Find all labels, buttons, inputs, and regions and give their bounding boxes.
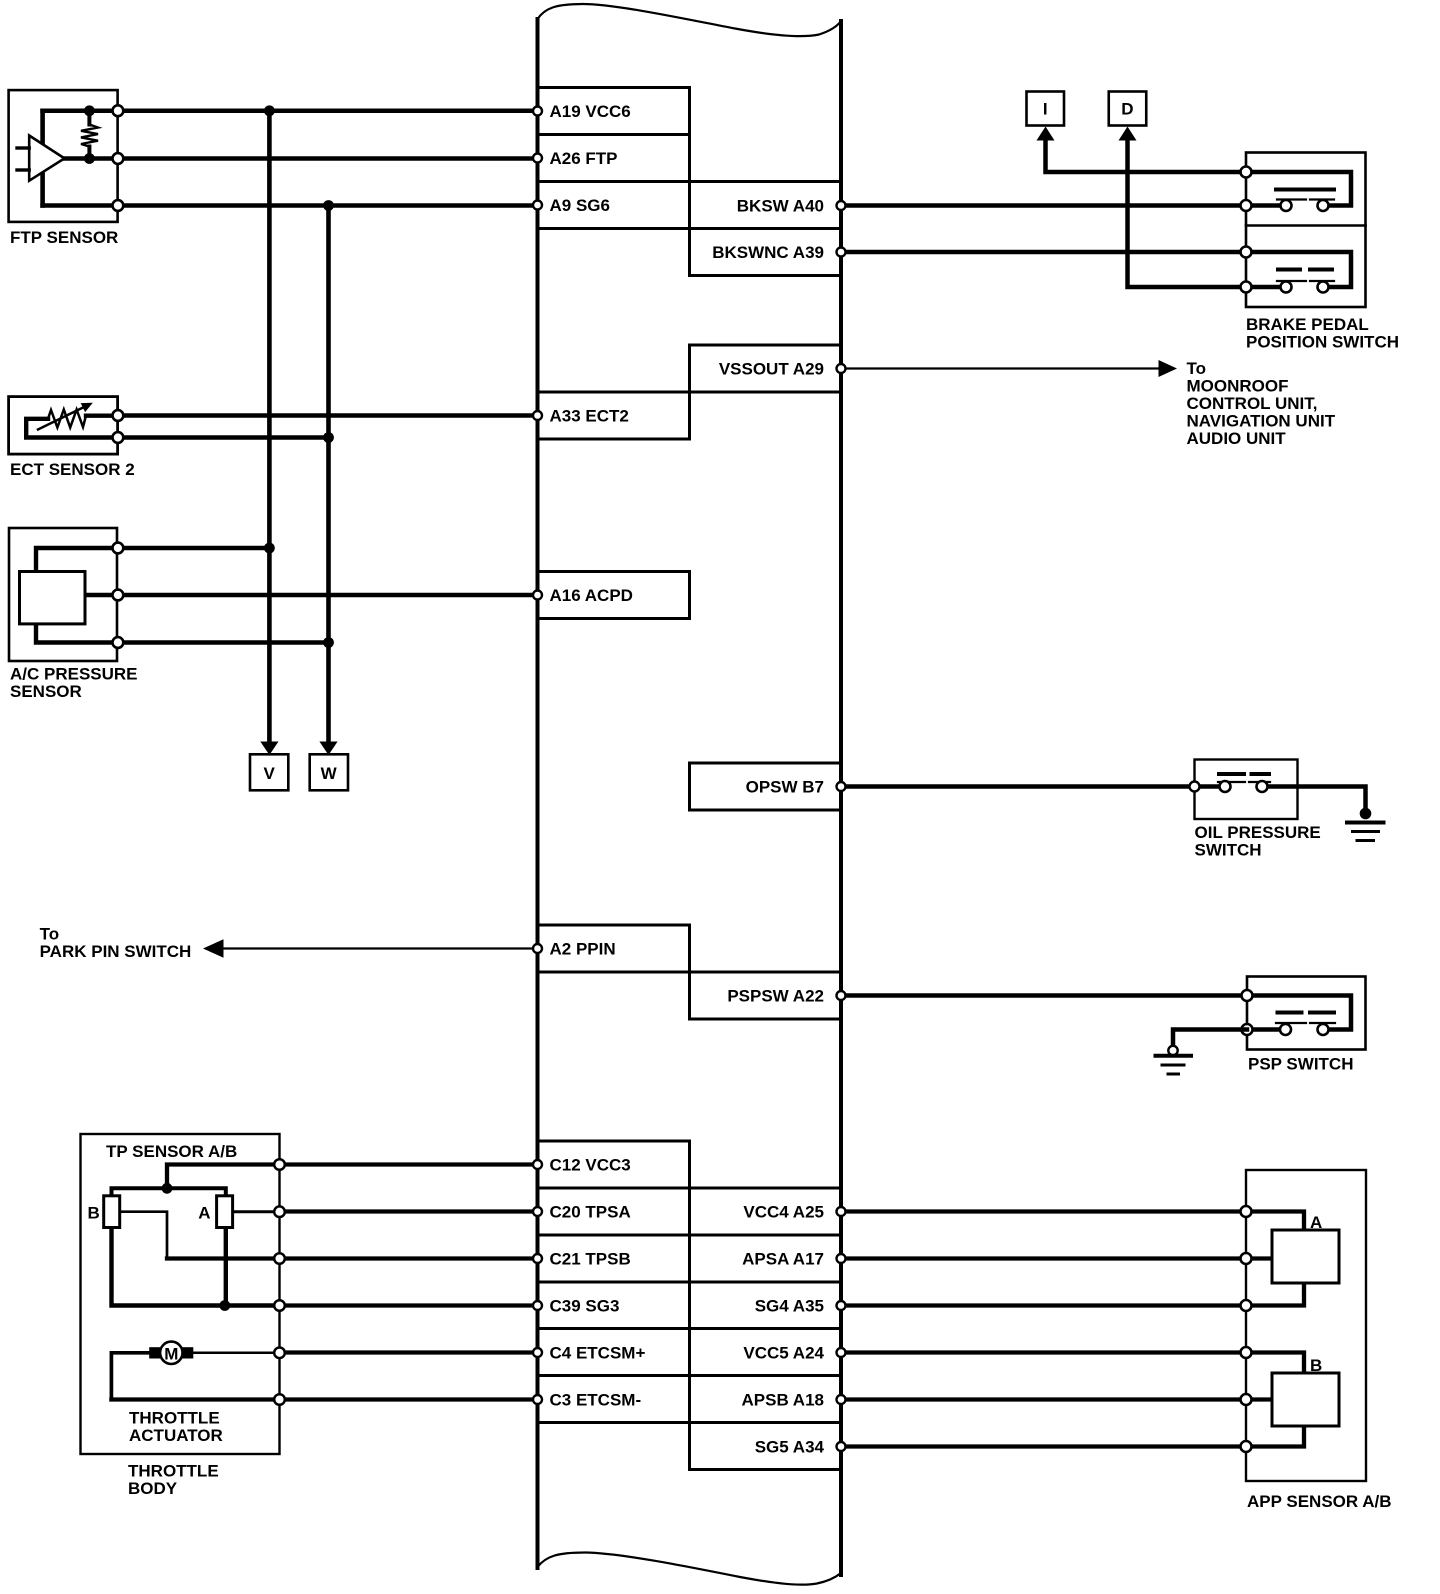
To MOONROOF CONTROL UNIT NAVIGATION UNIT AUDIO UNIT label bbox=[1187, 359, 1336, 448]
ECT thermistor arrowhead bbox=[81, 403, 93, 412]
ECM pin A9 SG6 bbox=[533, 196, 610, 215]
junction ACP ground on net W bbox=[323, 637, 334, 648]
svg-text:ACTUATOR: ACTUATOR bbox=[129, 1426, 223, 1445]
APP sensor B vcc wire bbox=[1246, 1353, 1304, 1374]
oil pressure switch right wire to ground bbox=[1262, 787, 1366, 813]
ACP internal vcc wire bbox=[36, 548, 118, 572]
brake switch upper contact plates bbox=[1277, 198, 1334, 200]
wire C39 SG3 to throttle body bbox=[280, 1303, 538, 1307]
svg-text:C12 VCC3: C12 VCC3 bbox=[550, 1156, 631, 1175]
throttle actuator motor left wire bbox=[111, 1353, 149, 1400]
ECM top torn edge bbox=[538, 4, 842, 36]
ECM pin A2 PPIN bbox=[533, 940, 616, 959]
svg-text:D: D bbox=[1121, 100, 1133, 119]
wire A2 PPIN to park pin switch bbox=[222, 947, 538, 949]
TP sensor A wiper wire bbox=[233, 1210, 280, 1213]
TP box pin C20 terminal bbox=[274, 1206, 285, 1217]
throttle body box bbox=[81, 1134, 280, 1454]
wire C20 TPSA to throttle body bbox=[280, 1209, 538, 1213]
junction ACP vcc on net V bbox=[264, 543, 275, 554]
TP box pin C21 terminal bbox=[274, 1253, 285, 1264]
ECM pin C21 TPSB bbox=[533, 1250, 631, 1269]
FTP pin2 terminal bbox=[113, 153, 124, 164]
TP sensor B wiper wire bbox=[120, 1212, 167, 1259]
ECM bottom torn edge bbox=[538, 1553, 842, 1585]
svg-text:A33 ECT2: A33 ECT2 bbox=[550, 407, 629, 426]
TP sensor A ground wire bbox=[224, 1228, 228, 1306]
ECT pin1 terminal bbox=[113, 410, 124, 421]
brake switch lower left terminal wire bbox=[1246, 285, 1280, 290]
APP sensor B signal wire bbox=[1246, 1397, 1272, 1401]
FTP op-amp input stub lower bbox=[17, 168, 29, 171]
APP sensor element B box bbox=[1272, 1373, 1339, 1426]
A/C pressure sensor box bbox=[9, 528, 117, 661]
brake pedal position switch box bbox=[1246, 153, 1366, 308]
ACP pin2 terminal bbox=[113, 590, 124, 601]
wire VSSOUT A29 to moonroof units bbox=[841, 367, 1160, 369]
ECM pin PSPSW A22 bbox=[727, 987, 845, 1006]
svg-text:BKSWNC A39: BKSWNC A39 bbox=[712, 243, 824, 262]
svg-text:B: B bbox=[1310, 1356, 1322, 1375]
FTP sensor internal left vertical wire bbox=[40, 111, 45, 206]
OIL PRESSURE SWITCH label bbox=[1195, 823, 1321, 860]
ECM pin APSA A17 bbox=[742, 1250, 845, 1269]
APP sensor A ground wire bbox=[1246, 1283, 1304, 1306]
ECM pin C39 SG3 bbox=[533, 1297, 619, 1316]
ECM pin C20 TPSA bbox=[533, 1203, 631, 1222]
throttle actuator motor right wire bbox=[193, 1352, 279, 1355]
ECM pin box grid: right column lines bbox=[690, 276, 842, 1470]
junction ECT ground on net W bbox=[323, 432, 334, 443]
ECM pin BKSWNC A39 bbox=[712, 243, 845, 262]
arrowhead to park pin switch bbox=[203, 939, 224, 957]
throttle actuator motor M bbox=[160, 1342, 182, 1364]
ECM pin C4 ETCSM+ bbox=[533, 1344, 645, 1363]
ECM pin VSSOUT A29 bbox=[719, 360, 846, 379]
arrowhead into I box bbox=[1037, 127, 1055, 141]
wire OPSW B7 to oil pressure switch bbox=[841, 784, 1225, 789]
APP sensor element A box bbox=[1272, 1230, 1339, 1283]
brake switch lower contact wire bbox=[1246, 252, 1351, 287]
oil pressure switch open dashes bbox=[1219, 772, 1269, 776]
svg-text:VCC5 A24: VCC5 A24 bbox=[743, 1344, 824, 1363]
FTP sensor op-amp triangle bbox=[29, 136, 64, 181]
TP potentiometer B bbox=[104, 1196, 120, 1228]
To PARK PIN SWITCH label bbox=[40, 925, 192, 962]
indicator box I bbox=[1027, 92, 1065, 126]
PSP switch box bbox=[1247, 977, 1366, 1050]
junction node W tap on A9 wire bbox=[323, 200, 334, 211]
ACP pin1 terminal bbox=[113, 543, 124, 554]
wire C3 ETCSM- to throttle body bbox=[280, 1397, 538, 1401]
wire SG5 A34 to APP sensor bbox=[841, 1444, 1246, 1448]
ECM pin A33 ECT2 bbox=[533, 407, 629, 426]
svg-text:I: I bbox=[1043, 100, 1048, 119]
APP sensor A signal wire bbox=[1246, 1256, 1272, 1260]
ECM pin BKSW A40 bbox=[737, 197, 846, 216]
APP sensor pin SG4 terminal bbox=[1241, 1300, 1252, 1311]
svg-text:A: A bbox=[1310, 1213, 1322, 1232]
FTP op-amp input stub upper bbox=[17, 146, 29, 149]
svg-text:THROTTLE: THROTTLE bbox=[129, 1409, 220, 1428]
ECM pin OPSW B7 bbox=[746, 778, 846, 797]
brake switch pin3 terminal bbox=[1241, 247, 1252, 258]
ECM left bus line bbox=[536, 19, 540, 1568]
svg-text:OIL PRESSURE: OIL PRESSURE bbox=[1195, 823, 1321, 842]
arrowhead into W box bbox=[319, 742, 337, 756]
svg-text:SG4 A35: SG4 A35 bbox=[755, 1297, 824, 1316]
ECM pin VCC5 A24 bbox=[743, 1344, 845, 1363]
svg-text:B: B bbox=[88, 1203, 100, 1222]
svg-text:A26 FTP: A26 FTP bbox=[550, 149, 618, 168]
PSP switch terminal A bbox=[1280, 1024, 1291, 1035]
junction FTP resistor top bbox=[84, 105, 95, 116]
svg-text:A: A bbox=[198, 1203, 210, 1222]
PSP switch open dashes bbox=[1278, 1011, 1335, 1015]
svg-text:TP SENSOR A/B: TP SENSOR A/B bbox=[106, 1142, 237, 1161]
ECM pin box grid: left column lines bbox=[538, 88, 690, 1142]
wire ECT pin1 to A33 ECT2 bbox=[118, 413, 538, 417]
brake switch lower open dashes bbox=[1278, 268, 1332, 272]
W box bbox=[310, 754, 348, 790]
svg-text:BODY: BODY bbox=[128, 1479, 178, 1498]
brake switch lower contact plates bbox=[1277, 280, 1334, 282]
ECM pin A26 FTP bbox=[533, 149, 618, 168]
wire ACP pin2 to A16 ACPD bbox=[118, 593, 538, 597]
wire TP B wiper to C21 bbox=[167, 1256, 280, 1260]
svg-text:C4 ETCSM+: C4 ETCSM+ bbox=[550, 1344, 646, 1363]
svg-text:APSA A17: APSA A17 bbox=[742, 1250, 824, 1269]
FTP sensor box bbox=[9, 90, 118, 222]
PSP switch contact plates bbox=[1276, 1022, 1335, 1024]
ECM pin A16 ACPD bbox=[533, 586, 633, 605]
arrowhead VSSOUT bbox=[1159, 360, 1178, 377]
arrowhead into D box bbox=[1119, 127, 1137, 141]
ground G101 dot bbox=[1360, 808, 1372, 820]
ECM pin SG4 A35 bbox=[755, 1297, 846, 1316]
wire brake switch pin1 to indicator I bbox=[1046, 141, 1247, 173]
FTP internal resistor top lead bbox=[87, 111, 91, 125]
wire net W vertical bbox=[326, 206, 331, 742]
junction node V tap on A19 wire bbox=[264, 105, 275, 116]
svg-text:A19 VCC6: A19 VCC6 bbox=[550, 102, 631, 121]
ECT sensor box bbox=[9, 397, 118, 455]
ground G401 terminal circle bbox=[1168, 1046, 1177, 1055]
ECT pin2 terminal bbox=[113, 432, 124, 443]
wire PSP switch to ground bbox=[1173, 1030, 1247, 1047]
wire C21 TPSB to throttle body bbox=[280, 1256, 538, 1260]
ECT thermistor zigzag bbox=[48, 410, 86, 428]
svg-text:To: To bbox=[40, 925, 60, 944]
APP sensor pin SG5 terminal bbox=[1241, 1441, 1252, 1452]
indicator box D bbox=[1109, 92, 1147, 126]
PSP switch left terminal wire bbox=[1247, 1027, 1280, 1032]
svg-text:AUDIO UNIT: AUDIO UNIT bbox=[1187, 429, 1287, 448]
svg-text:C39 SG3: C39 SG3 bbox=[550, 1297, 620, 1316]
ECM right bus line bbox=[839, 21, 843, 1575]
PSP switch contact wire bbox=[1247, 996, 1351, 1030]
brake switch upper terminal A bbox=[1281, 200, 1292, 211]
TP sensor top bar wire bbox=[112, 1188, 226, 1196]
ECM pin SG5 A34 bbox=[755, 1438, 846, 1457]
svg-text:VSSOUT A29: VSSOUT A29 bbox=[719, 360, 824, 379]
PSP switch terminal B bbox=[1318, 1024, 1329, 1035]
TP box pin C12 terminal bbox=[274, 1159, 285, 1170]
svg-text:FTP SENSOR: FTP SENSOR bbox=[10, 228, 118, 247]
svg-text:ECT SENSOR 2: ECT SENSOR 2 bbox=[10, 460, 135, 479]
FTP internal resistor zigzag bbox=[81, 125, 98, 147]
brake switch pin4 terminal bbox=[1241, 282, 1252, 293]
APP sensor pin VCC4 terminal bbox=[1241, 1206, 1252, 1217]
wire PSPSW A22 to PSP switch bbox=[841, 993, 1247, 998]
wire FTP pin2 to A26 FTP bbox=[118, 156, 538, 161]
svg-text:V: V bbox=[264, 764, 276, 783]
FTP sensor internal ground wire bbox=[43, 203, 118, 208]
TP box pin C4 terminal bbox=[274, 1348, 285, 1359]
wire APSA A17 to APP sensor bbox=[841, 1256, 1246, 1260]
junction TP ground bbox=[219, 1300, 230, 1311]
svg-text:MOONROOF: MOONROOF bbox=[1187, 377, 1289, 396]
THROTTLE ACTUATOR label bbox=[129, 1409, 223, 1446]
FTP pin1 terminal bbox=[113, 105, 124, 116]
svg-text:THROTTLE: THROTTLE bbox=[128, 1462, 219, 1481]
brake switch lower terminal A bbox=[1281, 282, 1292, 293]
FTP pin3 terminal bbox=[113, 200, 124, 211]
APP sensor pin VCC5 terminal bbox=[1241, 1347, 1252, 1358]
brake switch upper contact wire bbox=[1246, 172, 1351, 206]
APP sensor A vcc wire bbox=[1246, 1212, 1304, 1231]
svg-text:NAVIGATION UNIT: NAVIGATION UNIT bbox=[1187, 412, 1336, 431]
oil pressure switch terminal A bbox=[1220, 781, 1231, 792]
ACP internal ground wire bbox=[36, 624, 118, 643]
BRAKE PEDAL POSITION SWITCH label bbox=[1246, 315, 1399, 352]
APP sensor B ground wire bbox=[1246, 1426, 1304, 1447]
wire C4 ETCSM+ to throttle body bbox=[280, 1350, 538, 1354]
V box bbox=[250, 754, 288, 790]
svg-text:M: M bbox=[164, 1344, 178, 1363]
ACP pin3 terminal bbox=[113, 637, 124, 648]
TP sensor vcc wire bbox=[167, 1165, 280, 1189]
oil pressure switch terminal B bbox=[1257, 781, 1268, 792]
ECT thermistor arrow line bbox=[38, 407, 85, 430]
wire BKSW A40 to brake switch pin2 bbox=[841, 203, 1246, 208]
svg-text:BRAKE PEDAL: BRAKE PEDAL bbox=[1246, 315, 1369, 334]
svg-text:POSITION SWITCH: POSITION SWITCH bbox=[1246, 333, 1399, 352]
svg-text:A/C PRESSURE: A/C PRESSURE bbox=[10, 665, 138, 684]
brake switch pin1 terminal bbox=[1241, 167, 1252, 178]
TP sensor B ground wire bbox=[112, 1228, 280, 1306]
ECM pin VCC4 A25 bbox=[743, 1203, 845, 1222]
FTP sensor internal output wire bbox=[60, 156, 118, 161]
wire net V vertical bbox=[267, 111, 272, 742]
svg-text:A9 SG6: A9 SG6 bbox=[550, 196, 610, 215]
svg-text:VCC4 A25: VCC4 A25 bbox=[743, 1203, 824, 1222]
ACP internal signal wire bbox=[85, 593, 118, 597]
TP box pin C39 terminal bbox=[274, 1300, 285, 1311]
TP box pin C3 terminal bbox=[274, 1394, 285, 1405]
ECM pin C12 VCC3 bbox=[533, 1156, 631, 1175]
ground G101 bars bbox=[1347, 823, 1384, 841]
A/C PRESSURE SENSOR label bbox=[10, 665, 138, 702]
APP sensor pin APSA terminal bbox=[1241, 1253, 1252, 1264]
ECM pin box divider column bbox=[688, 88, 691, 1470]
svg-text:C20 TPSA: C20 TPSA bbox=[550, 1203, 631, 1222]
svg-text:OPSW B7: OPSW B7 bbox=[746, 778, 824, 797]
brake switch upper terminal B bbox=[1318, 200, 1329, 211]
svg-text:SG5 A34: SG5 A34 bbox=[755, 1438, 825, 1457]
brake switch upper closed bar bbox=[1276, 188, 1334, 192]
throttle actuator motor right brush bbox=[182, 1347, 193, 1358]
junction FTP resistor bottom bbox=[84, 153, 95, 164]
brake switch lower terminal B bbox=[1318, 282, 1329, 293]
svg-text:A16 ACPD: A16 ACPD bbox=[550, 586, 633, 605]
APP sensor pin APSB terminal bbox=[1241, 1394, 1252, 1405]
wire brake switch pin4 to indicator D bbox=[1128, 141, 1247, 288]
ECT thermistor left hook wire bbox=[26, 419, 118, 438]
wire APSB A18 to APP sensor bbox=[841, 1397, 1246, 1401]
wire C12 VCC3 to throttle body bbox=[280, 1162, 538, 1166]
svg-text:C21 TPSB: C21 TPSB bbox=[550, 1250, 631, 1269]
APP sensor box bbox=[1246, 1170, 1366, 1481]
wire ACP pin1 to net V bbox=[118, 546, 270, 550]
wire VCC5 A24 to APP sensor bbox=[841, 1350, 1246, 1354]
svg-text:BKSW A40: BKSW A40 bbox=[737, 197, 824, 216]
arrowhead into V box bbox=[260, 742, 278, 756]
wire throttle actuator to C3 bbox=[111, 1397, 279, 1401]
svg-text:SWITCH: SWITCH bbox=[1195, 841, 1262, 860]
wire FTP pin1 to A19 VCC6 bbox=[118, 108, 538, 113]
ground G401 bars bbox=[1156, 1056, 1192, 1074]
wire SG4 A35 to APP sensor bbox=[841, 1303, 1246, 1307]
brake switch upper left terminal wire bbox=[1246, 203, 1280, 208]
wire FTP pin3 to A9 SG6 bbox=[118, 203, 538, 208]
svg-text:PARK PIN SWITCH: PARK PIN SWITCH bbox=[40, 942, 192, 961]
brake switch cell divider bbox=[1246, 224, 1366, 227]
junction TP vcc bar bbox=[162, 1183, 173, 1194]
oil pressure switch contact plates bbox=[1218, 781, 1270, 783]
wire ACP pin3 to net W bbox=[118, 640, 329, 644]
ACP inner element box bbox=[20, 572, 86, 624]
svg-text:C3 ETCSM-: C3 ETCSM- bbox=[550, 1391, 642, 1410]
brake switch pin2 terminal bbox=[1241, 200, 1252, 211]
wire VCC4 A25 to APP sensor bbox=[841, 1209, 1246, 1213]
svg-text:W: W bbox=[321, 764, 338, 783]
svg-text:SENSOR: SENSOR bbox=[10, 682, 82, 701]
PSP switch pin2 terminal bbox=[1242, 1024, 1253, 1035]
FTP sensor internal VCC wire bbox=[43, 108, 118, 113]
oil pressure switch box-edge terminal bbox=[1190, 782, 1200, 792]
THROTTLE BODY label bbox=[128, 1462, 219, 1499]
svg-text:PSP SWITCH: PSP SWITCH bbox=[1248, 1055, 1353, 1074]
svg-text:To: To bbox=[1187, 359, 1207, 378]
ECM pin APSB A18 bbox=[741, 1391, 845, 1410]
PSP switch pin1 terminal bbox=[1242, 990, 1253, 1001]
wire BKSWNC A39 to brake switch pin3 bbox=[841, 250, 1246, 255]
svg-text:PSPSW A22: PSPSW A22 bbox=[727, 987, 824, 1006]
FTP internal resistor bottom lead bbox=[87, 147, 91, 159]
ECM pin box grid: full width lines bbox=[538, 182, 842, 1423]
ECT thermistor right lead bbox=[86, 414, 118, 418]
svg-text:CONTROL UNIT,: CONTROL UNIT, bbox=[1187, 394, 1318, 413]
throttle actuator motor left brush bbox=[149, 1347, 160, 1358]
ECM pin A19 VCC6 bbox=[533, 102, 631, 121]
svg-text:APSB A18: APSB A18 bbox=[741, 1391, 824, 1410]
wire ECT pin2 to net W bbox=[118, 435, 329, 439]
oil pressure switch box bbox=[1195, 760, 1298, 820]
svg-text:APP SENSOR A/B: APP SENSOR A/B bbox=[1247, 1492, 1392, 1511]
svg-text:A2 PPIN: A2 PPIN bbox=[550, 940, 616, 959]
ECM pin C3 ETCSM- bbox=[533, 1391, 641, 1410]
TP potentiometer A bbox=[217, 1196, 233, 1228]
